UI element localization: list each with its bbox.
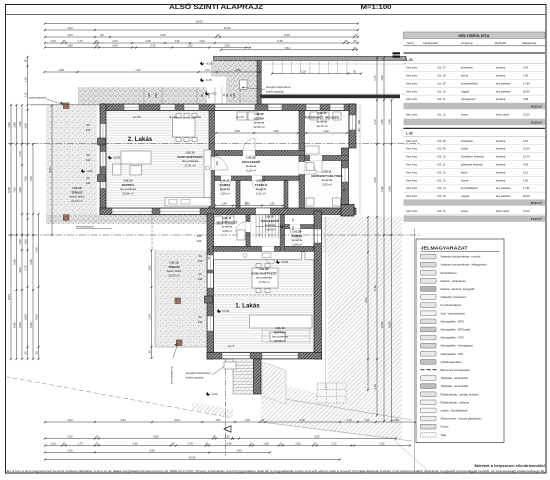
svg-text:6,15 m²: 6,15 m² bbox=[246, 168, 256, 172]
svg-text:90: 90 bbox=[87, 123, 90, 127]
window bottom lower 2 bbox=[262, 353, 298, 358]
legend row: Vasbeton tartószerkezet - előregyártott bbox=[421, 262, 487, 267]
interior wall below furdo bbox=[305, 156, 349, 161]
svg-text:levegős hőszivattyú: levegős hőszivattyú bbox=[186, 371, 211, 375]
svg-text:10,79 m²: 10,79 m² bbox=[316, 124, 327, 128]
door gap stair passage bbox=[256, 208, 270, 214]
svg-text:1,50: 1,50 bbox=[18, 239, 22, 245]
svg-text:20: 20 bbox=[345, 39, 348, 43]
pilaster blocks left wall bbox=[98, 138, 213, 303]
svg-text:20: 20 bbox=[213, 435, 216, 439]
svg-text:kerámia: kerámia bbox=[496, 66, 506, 70]
legend row: Falazat - vázkerámia bbox=[421, 279, 466, 284]
svg-text:1,50: 1,50 bbox=[24, 239, 28, 245]
legend row: Hőszigetelés - EPS bbox=[421, 319, 464, 324]
table sum row 21,00 bbox=[404, 216, 546, 222]
slope hatch patch below stairs bbox=[262, 362, 286, 404]
svg-text:20,96 m²: 20,96 m² bbox=[122, 191, 133, 195]
svg-text:L02. 09: L02. 09 bbox=[437, 147, 446, 151]
svg-text:3,40: 3,40 bbox=[24, 123, 28, 129]
dashed vertical line below building bbox=[225, 359, 227, 456]
svg-text:Ez a terv a fent megnevezett t: Ez a terv a fent megnevezett tervező sze… bbox=[7, 470, 546, 473]
svg-text:9,35: 9,35 bbox=[523, 163, 529, 167]
svg-text:lam.parketta: lam.parketta bbox=[496, 194, 511, 198]
svg-text:8,20: 8,20 bbox=[284, 33, 290, 37]
slope hatch band bottom right bbox=[261, 381, 328, 431]
svg-text:90: 90 bbox=[199, 254, 202, 258]
svg-text:1,10: 1,10 bbox=[204, 68, 210, 72]
svg-text:Padlóburkolat - parketta: Padlóburkolat - parketta bbox=[441, 400, 470, 404]
svg-text:Tetőfedés - lemezfedés: Tetőfedés - lemezfedés bbox=[441, 384, 469, 388]
floor kozlekedo L01.07 bbox=[250, 215, 280, 247]
window top 5 bbox=[306, 105, 320, 110]
svg-text:WC/GÉPÉSZET: WC/GÉPÉSZET bbox=[216, 219, 237, 224]
svg-text:Vasbeton tartószerkezet - mono: Vasbeton tartószerkezet - monolit bbox=[441, 255, 481, 259]
svg-text:1,10: 1,10 bbox=[364, 418, 370, 422]
right dim chain 3 bbox=[380, 57, 385, 422]
rotated dim labels misc bbox=[208, 93, 361, 259]
table section divider L.01 bbox=[404, 52, 546, 54]
top dim chain 2 bbox=[44, 26, 359, 31]
svg-text:30: 30 bbox=[261, 418, 264, 422]
svg-text:2,90: 2,90 bbox=[273, 129, 279, 133]
svg-text:7,84: 7,84 bbox=[284, 46, 290, 50]
svg-text:kerámia: kerámia bbox=[496, 155, 506, 159]
room label L02.08 közlekedő bbox=[242, 156, 261, 173]
kitchen counter 2.Lakas bbox=[165, 150, 211, 206]
heat pump unit upper bbox=[240, 80, 248, 89]
left dim chain 1 bbox=[7, 104, 12, 360]
terrace door top bbox=[215, 105, 255, 110]
svg-text:17,84 m²: 17,84 m² bbox=[258, 280, 269, 284]
bottom dim chain 2 bbox=[44, 435, 397, 440]
svg-text:Alsó szint: Alsó szint bbox=[406, 97, 417, 101]
svg-text:1,73: 1,73 bbox=[77, 39, 83, 43]
svg-text:83: 83 bbox=[353, 70, 356, 74]
machines gepeszeti L02.11 bbox=[306, 163, 341, 207]
table header band HELYISÉGLISTA bbox=[404, 32, 546, 39]
svg-text:L02. 10: L02. 10 bbox=[437, 155, 446, 159]
svg-text:kamra: kamra bbox=[461, 178, 469, 182]
interior wall kamra L01.08 left bbox=[281, 215, 285, 253]
bottom dim chain 1 bbox=[44, 418, 417, 423]
svg-text:8,38: 8,38 bbox=[373, 285, 377, 291]
door gap gepeszeti wall bbox=[310, 155, 322, 161]
left dim chain 2 bbox=[13, 104, 18, 360]
svg-text:23,30 m²: 23,30 m² bbox=[531, 121, 542, 125]
svg-text:240: 240 bbox=[86, 181, 91, 185]
door gap szoba wall bbox=[243, 150, 255, 156]
title underline bbox=[6, 14, 547, 16]
wall right upper (furdo) bbox=[349, 104, 356, 148]
svg-text:1,50: 1,50 bbox=[174, 39, 180, 43]
svg-text:lam.parketta: lam.parketta bbox=[496, 81, 511, 85]
svg-text:21,00 m²: 21,00 m² bbox=[531, 217, 542, 221]
svg-text:KONYHA/ÉTKEZŐ: KONYHA/ÉTKEZŐ bbox=[251, 270, 277, 275]
svg-text:3,30: 3,30 bbox=[379, 442, 385, 446]
svg-text:Alsó szint: Alsó szint bbox=[406, 209, 417, 213]
pm 90 labels bbox=[133, 115, 244, 348]
svg-text:közlekedő: közlekedő bbox=[461, 139, 473, 143]
top dim chain 3 bbox=[44, 33, 359, 38]
svg-text:2,00: 2,00 bbox=[199, 39, 205, 43]
svg-text:pm 90: pm 90 bbox=[193, 115, 201, 119]
legend row: Padlóburkolat - parketta bbox=[421, 400, 470, 405]
svg-text:Alsó szint: Alsó szint bbox=[406, 194, 417, 198]
svg-text:Hőszigetelés - EPS grafit: Hőszigetelés - EPS grafit bbox=[441, 328, 471, 332]
svg-text:2,34: 2,34 bbox=[148, 314, 152, 320]
svg-text:kerámia: kerámia bbox=[496, 163, 506, 167]
svg-text:3,00: 3,00 bbox=[224, 44, 230, 48]
svg-text:Alsó szint: Alsó szint bbox=[406, 139, 417, 143]
svg-text:-0,02: -0,02 bbox=[210, 92, 217, 96]
svg-text:2,20: 2,20 bbox=[150, 44, 156, 48]
svg-text:L02. 16: L02. 16 bbox=[437, 209, 446, 213]
svg-text:Alsó szint: Alsó szint bbox=[406, 74, 417, 78]
svg-text:23,30: 23,30 bbox=[523, 112, 530, 116]
svg-text:3,00: 3,00 bbox=[67, 418, 73, 422]
svg-text:levegős hőszivattyú: levegős hőszivattyú bbox=[266, 85, 291, 89]
door bottom lower 1 bbox=[222, 353, 250, 358]
terrace lower dim chain bbox=[148, 249, 153, 359]
svg-text:5,18: 5,18 bbox=[300, 70, 306, 74]
svg-text:Alsó szint: Alsó szint bbox=[406, 163, 417, 167]
svg-text:1,00 m²: 1,00 m² bbox=[292, 242, 302, 246]
garden wall column bbox=[257, 58, 261, 105]
svg-text:L02. 12: L02. 12 bbox=[437, 170, 446, 174]
door gap kamra L02.13 bbox=[221, 176, 231, 181]
bathroom fixtures L02.10 bbox=[305, 112, 341, 154]
svg-text:±0,00: ±0,00 bbox=[281, 260, 288, 264]
svg-text:Bitumenes vízszigetelés: Bitumenes vízszigetelés bbox=[441, 368, 470, 372]
window top 6 bbox=[330, 105, 344, 110]
legend row: Acél - tartószerkezet bbox=[421, 311, 466, 316]
svg-text:7,00: 7,00 bbox=[13, 187, 17, 193]
svg-text:2,10: 2,10 bbox=[18, 151, 22, 157]
svg-text:Vasbeton tartószerkezet - előr: Vasbeton tartószerkezet - előregyártott bbox=[441, 263, 487, 267]
room label L02.14 konyha/étkező bbox=[177, 151, 203, 168]
svg-text:2,00: 2,00 bbox=[112, 44, 118, 48]
section line B bbox=[8, 234, 420, 236]
svg-text:GÉPÉSZETI HELYISÉG: GÉPÉSZETI HELYISÉG bbox=[311, 173, 343, 178]
interior wall above kamra/tarolo bbox=[215, 176, 300, 181]
svg-text:7,00: 7,00 bbox=[24, 176, 28, 182]
sink and hob 2.Lakas bbox=[169, 166, 210, 204]
svg-text:7,00: 7,00 bbox=[29, 176, 33, 182]
svg-text:2,72: 2,72 bbox=[373, 119, 377, 125]
szoba wardrobe bbox=[237, 112, 258, 120]
bottom dim chain 4 bbox=[44, 449, 271, 454]
svg-text:ALSÓ SZINTI ALAPRAJZ: ALSÓ SZINTI ALAPRAJZ bbox=[169, 2, 263, 11]
legend row: Légrés - kiszellőztetett bbox=[421, 408, 468, 413]
window right gepeszeti bbox=[342, 168, 348, 182]
section mark glyph bbox=[393, 52, 401, 57]
svg-text:beton térkő: beton térkő bbox=[496, 112, 510, 116]
svg-text:1,10: 1,10 bbox=[346, 418, 352, 422]
wall bottom lower block bbox=[207, 353, 322, 360]
svg-text:kerámia: kerámia bbox=[496, 147, 506, 151]
svg-text:Talaj: Talaj bbox=[441, 433, 447, 437]
interior wall below szoba bbox=[215, 151, 305, 156]
legend row: Padlóburkolat - greslap burkolat bbox=[421, 392, 479, 397]
terrain stipple above building bbox=[78, 87, 207, 104]
svg-text:20,06 m²: 20,06 m² bbox=[274, 339, 285, 343]
svg-text:TÁROLÓ: TÁROLÓ bbox=[255, 182, 268, 187]
svg-text:1,00: 1,00 bbox=[50, 39, 56, 43]
svg-text:L02. 13: L02. 13 bbox=[437, 178, 446, 182]
svg-text:Acél - tartószerkezet: Acél - tartószerkezet bbox=[441, 311, 466, 315]
door gap konyha/kozlekedo wall bbox=[209, 157, 215, 170]
svg-text:ereszcsatorna: ereszcsatorna bbox=[170, 366, 174, 384]
svg-text:JELMAGYARÁZAT: JELMAGYARÁZAT bbox=[421, 246, 468, 251]
ereszcsatorna label mid bbox=[76, 225, 112, 229]
svg-text:240: 240 bbox=[86, 128, 91, 132]
svg-text:7,30: 7,30 bbox=[35, 247, 39, 253]
svg-text:20: 20 bbox=[354, 39, 357, 43]
svg-text:Alsó szint: Alsó szint bbox=[406, 112, 417, 116]
svg-text:240: 240 bbox=[197, 234, 202, 238]
window top 4 bbox=[268, 105, 282, 110]
svg-text:Méretek a helyszínen ellenőriz: Méretek a helyszínen ellenőrizendők! bbox=[475, 463, 545, 468]
svg-text:1,48: 1,48 bbox=[244, 418, 250, 422]
svg-text:90: 90 bbox=[101, 33, 104, 37]
svg-text:6,90: 6,90 bbox=[29, 322, 33, 328]
svg-text:tároló: tároló bbox=[461, 170, 468, 174]
svg-text:Padlóburkolat - greslap burkol: Padlóburkolat - greslap burkolat bbox=[441, 392, 479, 396]
svg-text:240: 240 bbox=[147, 93, 151, 98]
svg-text:3,80: 3,80 bbox=[67, 44, 73, 48]
table sum row 23,30 bbox=[404, 119, 546, 125]
elevation marker -4,02 terasz2 bbox=[81, 169, 93, 173]
window left lower 1 bbox=[208, 255, 214, 270]
svg-text:-0,15: -0,15 bbox=[205, 78, 212, 82]
svg-text:90: 90 bbox=[87, 153, 90, 157]
svg-text:3,00: 3,00 bbox=[174, 418, 180, 422]
svg-text:3,60: 3,60 bbox=[236, 449, 242, 453]
eresz line right of upper block bbox=[359, 104, 361, 215]
svg-text:KÖZLEKEDŐ: KÖZLEKEDŐ bbox=[261, 218, 280, 223]
room label L02.10 fürdő bbox=[305, 111, 340, 128]
svg-text:20: 20 bbox=[96, 44, 99, 48]
downspout mid left bbox=[64, 215, 69, 220]
terrace top edge line bbox=[30, 104, 100, 106]
svg-text:nappali: nappali bbox=[461, 89, 470, 93]
floor wc/gepeszet L01.11 bbox=[213, 215, 246, 247]
legend frame bbox=[416, 239, 504, 443]
svg-text:ereszcsatorna: ereszcsatorna bbox=[29, 96, 47, 100]
svg-text:20: 20 bbox=[217, 33, 220, 37]
deck grid above building bbox=[265, 59, 406, 95]
svg-text:Tetőfedés - lécburkolat: Tetőfedés - lécburkolat bbox=[441, 376, 468, 380]
svg-text:Alsó szint: Alsó szint bbox=[406, 66, 417, 70]
svg-text:nappali: nappali bbox=[461, 194, 470, 198]
svg-text:5,46: 5,46 bbox=[29, 259, 33, 265]
svg-text:+0,28: +0,28 bbox=[205, 62, 213, 66]
window left lower 3 bbox=[208, 316, 214, 331]
terrace L01.12 stipple bbox=[155, 250, 208, 347]
svg-text:82,94 m²: 82,94 m² bbox=[531, 201, 542, 205]
floor kamra L01.08 bbox=[285, 229, 315, 253]
elevation marker -0,02 top bbox=[205, 91, 217, 95]
svg-text:gépészeti helyiség: gépészeti helyiség bbox=[461, 163, 483, 167]
svg-text:2,46: 2,46 bbox=[226, 442, 232, 446]
svg-text:2,38: 2,38 bbox=[393, 418, 399, 422]
svg-text:1. Lakás: 1. Lakás bbox=[235, 303, 260, 310]
window right kamra bbox=[315, 229, 322, 243]
svg-text:6,38: 6,38 bbox=[277, 39, 283, 43]
svg-text:Válaszfal, pórusbeton: Válaszfal, pórusbeton bbox=[441, 295, 467, 299]
wall right mid (gepeszeti) bbox=[342, 148, 349, 212]
wall middle strip bottom bbox=[213, 247, 314, 252]
legend row: Tetőfedés - lécburkolat bbox=[421, 376, 468, 381]
svg-text:2,55: 2,55 bbox=[235, 68, 241, 72]
svg-text:M=1:100: M=1:100 bbox=[361, 4, 393, 11]
svg-text:23,30 m²: 23,30 m² bbox=[168, 273, 179, 277]
svg-text:terasz: terasz bbox=[461, 112, 469, 116]
svg-text:L.02: L.02 bbox=[406, 132, 413, 136]
window right furdo bbox=[350, 115, 356, 130]
svg-text:30: 30 bbox=[24, 351, 28, 354]
tarolo interior chain bbox=[214, 202, 284, 207]
svg-text:Hőhídmegszakító: Hőhídmegszakító bbox=[441, 360, 462, 364]
svg-text:1,79: 1,79 bbox=[187, 442, 193, 446]
interior wall wc/kozlekedo strip bbox=[246, 215, 250, 247]
heat pump leader dot bbox=[242, 87, 244, 89]
top dim chain 5b bbox=[220, 46, 358, 51]
svg-text:1,92: 1,92 bbox=[323, 129, 329, 133]
svg-text:20: 20 bbox=[96, 442, 99, 446]
plot boundary diagonal bbox=[5, 377, 230, 418]
ereszcsatorna label top bbox=[29, 96, 64, 105]
left dim chain 6 bbox=[35, 213, 40, 360]
furdo interior chain bbox=[305, 129, 348, 134]
window size labels 90/240 bbox=[86, 123, 203, 324]
table row L02.16 terasz bbox=[404, 209, 546, 215]
kitchen counter 1.Lakas bbox=[214, 252, 315, 260]
wall left lower block bbox=[207, 214, 214, 359]
svg-text:1,00: 1,00 bbox=[523, 178, 529, 182]
elevation marker -0,15 bbox=[200, 78, 212, 82]
svg-text:20: 20 bbox=[314, 442, 317, 446]
elevation marker ±0,00 nappali1 bbox=[217, 309, 230, 313]
svg-text:3,00: 3,00 bbox=[67, 33, 73, 37]
svg-text:Alsó szint: Alsó szint bbox=[406, 178, 417, 182]
svg-text:1,10: 1,10 bbox=[24, 77, 28, 83]
legend row: Hőhídmegszakító bbox=[421, 360, 462, 365]
room label L01.12 terasz bbox=[167, 261, 182, 278]
svg-text:5,46: 5,46 bbox=[388, 186, 392, 192]
legend row: Esztrichbeton bbox=[421, 270, 458, 275]
legend row: Hőszigetelés - XPS bbox=[421, 335, 464, 340]
svg-text:150: 150 bbox=[154, 93, 158, 98]
svg-text:L02. 15: L02. 15 bbox=[437, 194, 446, 198]
svg-text:L01. 08: L01. 08 bbox=[437, 74, 446, 78]
wall left exterior bbox=[100, 104, 106, 214]
slope hatch patch at diagonal end bbox=[192, 402, 233, 418]
door arcs bbox=[215, 139, 323, 264]
svg-text:20,06: 20,06 bbox=[523, 89, 530, 93]
svg-text:L02. 08: L02. 08 bbox=[437, 139, 446, 143]
floor kamra L02.13 bbox=[215, 181, 237, 209]
svg-text:210: 210 bbox=[216, 160, 219, 165]
window left lower 2 bbox=[208, 273, 214, 288]
svg-text:7,22: 7,22 bbox=[135, 68, 141, 72]
room label L02.15 nappali bbox=[120, 179, 136, 196]
svg-text:3,40: 3,40 bbox=[388, 119, 392, 125]
svg-text:16,00: 16,00 bbox=[224, 26, 231, 30]
svg-text:Hőszigetelés - XPS: Hőszigetelés - XPS bbox=[441, 336, 464, 340]
svg-text:30: 30 bbox=[63, 39, 66, 43]
svg-text:3,00: 3,00 bbox=[67, 435, 73, 439]
svg-text:1,30: 1,30 bbox=[187, 44, 193, 48]
svg-text:6,40: 6,40 bbox=[48, 167, 52, 173]
exterior stair below building bbox=[233, 359, 254, 394]
svg-text:10,55: 10,55 bbox=[523, 147, 530, 151]
svg-text:4,45: 4,45 bbox=[299, 418, 305, 422]
door gap kamra L01.08 bbox=[290, 224, 300, 229]
svg-text:30: 30 bbox=[172, 442, 175, 446]
svg-text:pm 90: pm 90 bbox=[236, 115, 244, 119]
svg-text:Álmennyezet - monolit gipszkar: Álmennyezet - monolit gipszkarton bbox=[441, 417, 483, 421]
svg-text:2,55: 2,55 bbox=[234, 129, 240, 133]
wall corner block SE upper bbox=[341, 205, 354, 217]
dining table 2.Lakas bbox=[173, 114, 198, 142]
svg-text:240: 240 bbox=[86, 158, 91, 162]
svg-text:Esztrichbeton: Esztrichbeton bbox=[441, 271, 458, 275]
szoba interior chain bbox=[215, 129, 299, 134]
svg-text:240: 240 bbox=[198, 320, 203, 324]
terrain stipple patch at heat pump bbox=[211, 60, 261, 103]
floor gepeszeti L02.11 bbox=[305, 161, 342, 209]
window top 2 bbox=[160, 105, 175, 110]
svg-text:L02. 14: L02. 14 bbox=[437, 186, 446, 190]
interior wall tarolo right bbox=[284, 181, 288, 209]
left dim chain 3 bbox=[18, 104, 23, 360]
heat pump label lower bbox=[186, 367, 224, 380]
svg-text:Hőszigetelés - kőzetgyapot: Hőszigetelés - kőzetgyapot bbox=[441, 344, 474, 348]
svg-text:2,00: 2,00 bbox=[295, 442, 301, 446]
svg-text:3,40: 3,40 bbox=[380, 75, 384, 81]
window top 3 bbox=[184, 105, 199, 110]
heat pump unit lower bbox=[224, 362, 236, 369]
svg-text:közlekedő: közlekedő bbox=[461, 66, 473, 70]
wall bottom upper block bbox=[100, 208, 356, 215]
svg-text:L02. 11: L02. 11 bbox=[437, 163, 446, 167]
downspout top left bbox=[64, 103, 69, 108]
svg-text:L01. 11: L01. 11 bbox=[437, 97, 446, 101]
svg-text:2,00: 2,00 bbox=[112, 39, 118, 43]
bottom dim chain 3 bbox=[44, 442, 411, 447]
svg-text:Burkolat: Burkolat bbox=[495, 41, 506, 45]
right dim chain 4 bbox=[388, 99, 393, 422]
wc fixtures L01.11 bbox=[215, 216, 246, 240]
svg-text:1,00 m²: 1,00 m² bbox=[220, 191, 230, 195]
svg-text:beton térkő: beton térkő bbox=[496, 209, 510, 213]
table rows L.02 bbox=[404, 139, 546, 200]
section arrow bottom bbox=[224, 426, 234, 441]
svg-text:30: 30 bbox=[63, 442, 66, 446]
legend row: Hőszigetelés - kőzetgyapot bbox=[421, 343, 474, 348]
table sum row 46,22 bbox=[404, 103, 546, 109]
stipple band below upper block bbox=[46, 215, 209, 225]
svg-text:20: 20 bbox=[355, 33, 358, 37]
svg-text:1,97: 1,97 bbox=[215, 418, 221, 422]
svg-text:L.01: L.01 bbox=[406, 58, 413, 62]
svg-text:6,80: 6,80 bbox=[149, 449, 155, 453]
svg-text:Alsó szint: Alsó szint bbox=[406, 89, 417, 93]
svg-text:pm 9: pm 9 bbox=[228, 344, 235, 348]
svg-text:6,21 m²: 6,21 m² bbox=[256, 191, 266, 195]
